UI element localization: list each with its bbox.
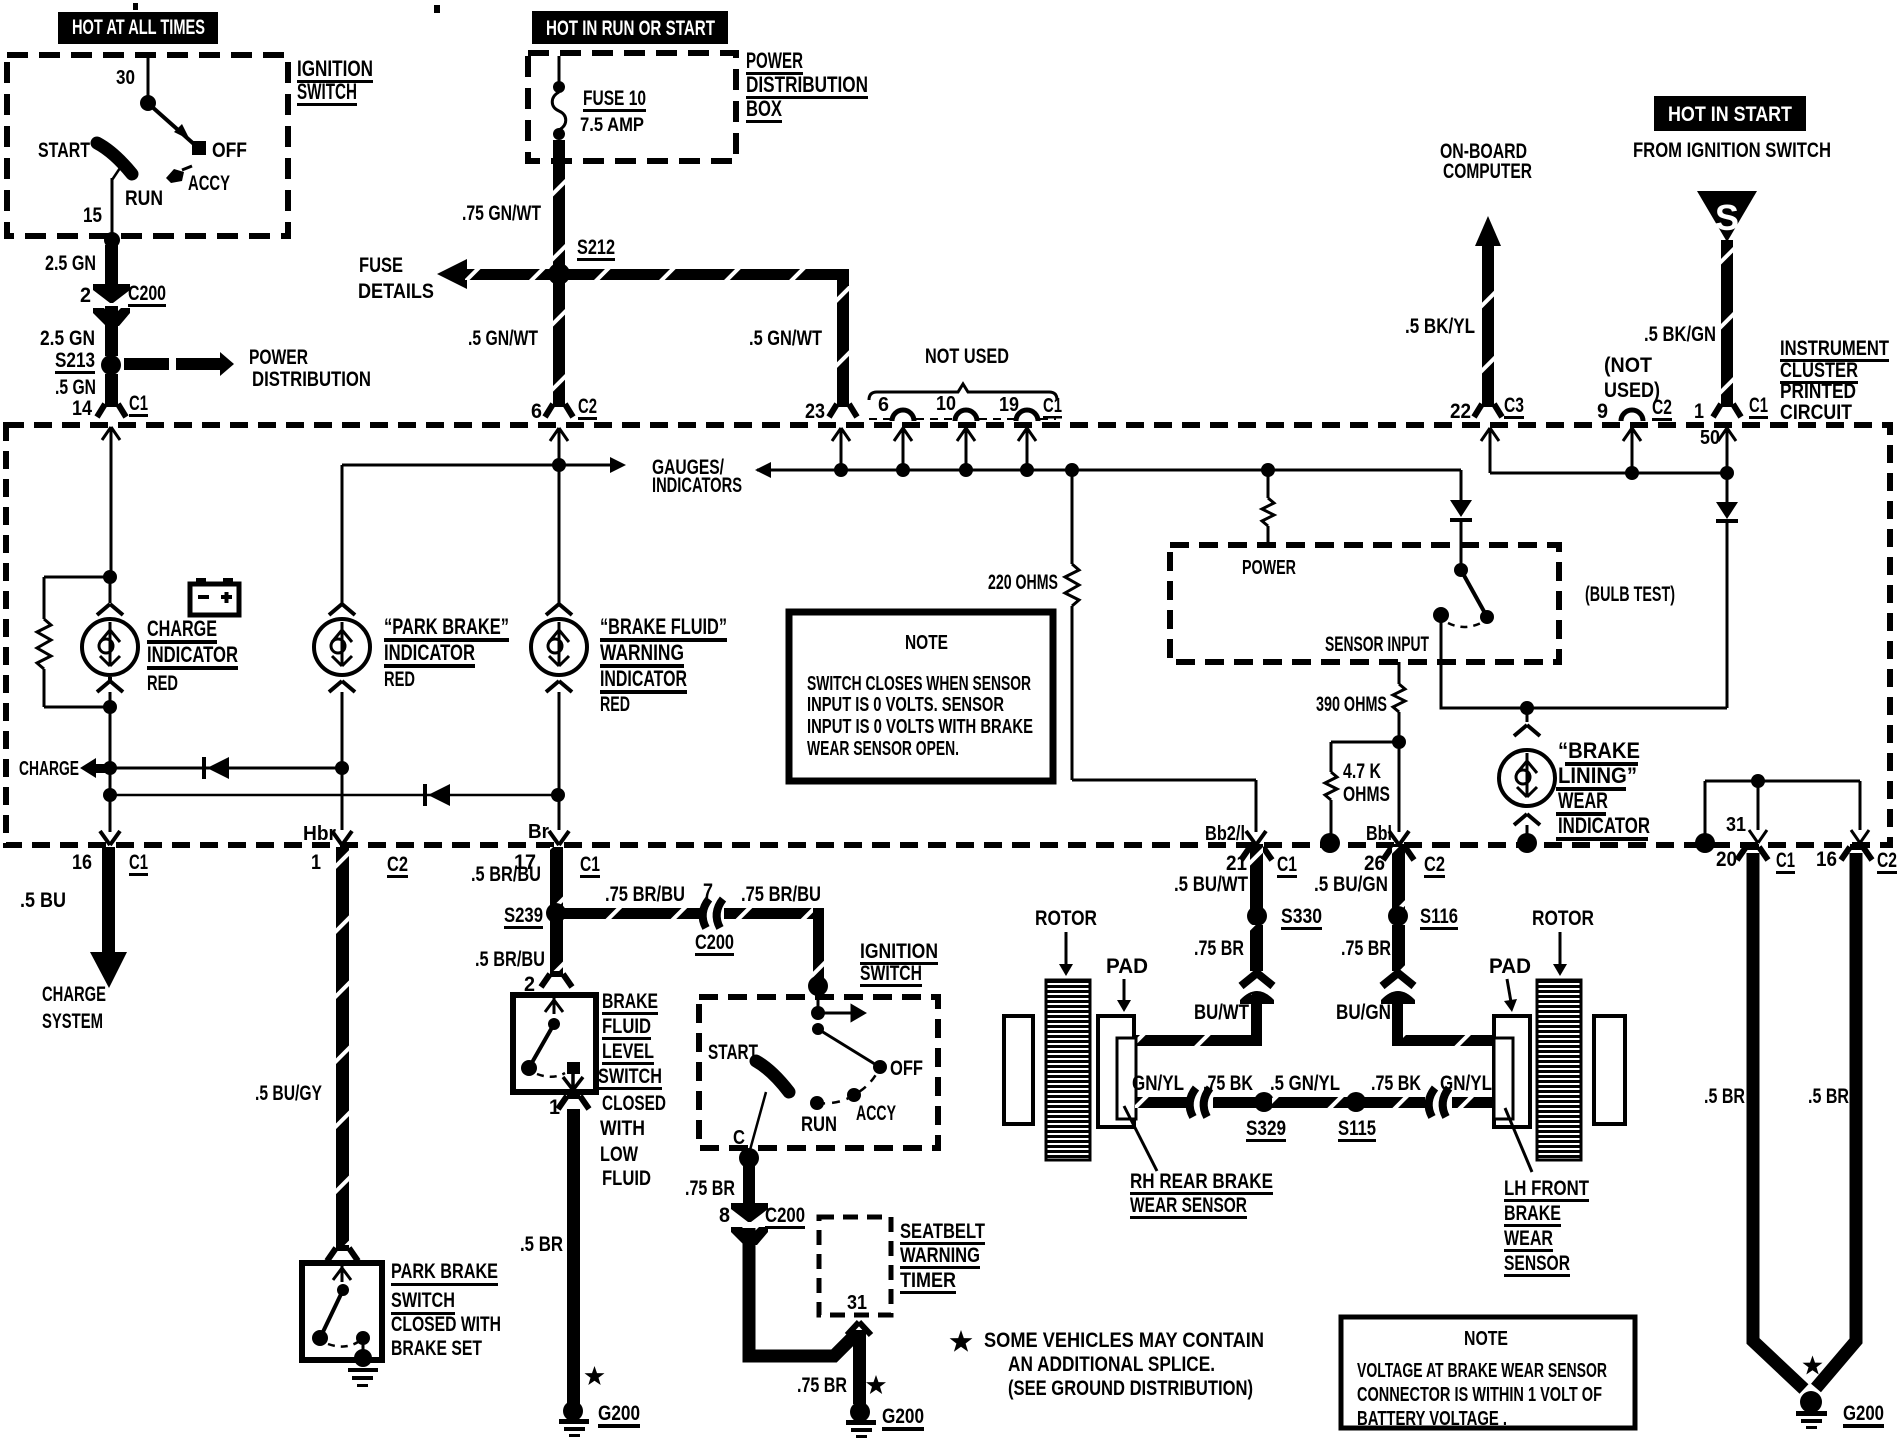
svg-text:WEAR SENSOR OPEN.: WEAR SENSOR OPEN.	[807, 738, 959, 760]
svg-text:DISTRIBUTION: DISTRIBUTION	[746, 72, 868, 97]
svg-text:POWER: POWER	[746, 48, 803, 73]
tick mark top middle	[434, 5, 440, 13]
390 ohms sensor input resistor	[1316, 662, 1405, 832]
bulb test switch	[1433, 563, 1494, 627]
svg-text:7.5 AMP: 7.5 AMP	[580, 115, 644, 136]
svg-text:SWITCH: SWITCH	[598, 1065, 662, 1088]
svg-text:S329: S329	[1246, 1117, 1286, 1140]
OFF contact	[174, 124, 190, 140]
svg-text:IGNITION: IGNITION	[860, 940, 938, 963]
label LH FRONT BRAKE WEAR SENSOR	[1504, 1177, 1589, 1277]
splice S116	[1388, 906, 1408, 926]
svg-text:C3: C3	[1504, 394, 1524, 417]
svg-text:.5 BR: .5 BR	[520, 1233, 563, 1256]
label RH REAR BRAKE WEAR SENSOR	[1130, 1170, 1273, 1219]
label GAUGES/INDICATORS	[652, 456, 742, 497]
wire bus at S212 (horizontal)	[465, 269, 849, 280]
svg-text:31: 31	[847, 1292, 867, 1314]
node 390/4.7k junction	[1392, 735, 1406, 749]
wire .5 BR (pin 20 to G200)	[1753, 853, 1804, 1389]
svg-text:BRAKE SET: BRAKE SET	[391, 1337, 482, 1360]
svg-text:CHARGE: CHARGE	[19, 758, 79, 780]
wire .75 BR (S116 to connector)	[1392, 925, 1405, 971]
label "PARK BRAKE" INDICATOR RED	[384, 614, 509, 691]
svg-text:DETAILS: DETAILS	[358, 280, 434, 303]
svg-text:WEAR SENSOR: WEAR SENSOR	[1130, 1194, 1247, 1217]
svg-text:HOT IN RUN OR START: HOT IN RUN OR START	[546, 17, 715, 40]
svg-text:POWER: POWER	[1242, 557, 1296, 579]
svg-text:ACCY: ACCY	[188, 172, 230, 195]
LH rotor (hatched)	[1537, 980, 1581, 1160]
wire .5 BU/GY (pin 1 C2 to park brake switch)	[255, 847, 358, 1261]
220 ohms resistor branch to pin 21	[988, 470, 1256, 832]
svg-text:LINING”: LINING”	[1558, 763, 1637, 788]
svg-text:.5 BU/WT: .5 BU/WT	[1174, 873, 1248, 896]
banner HOT IN START	[1654, 96, 1806, 131]
svg-text:C1: C1	[580, 853, 600, 876]
svg-text:INSTRUMENT: INSTRUMENT	[1780, 337, 1889, 360]
pin 14 C1 at cluster	[72, 392, 148, 420]
svg-text:INDICATORS: INDICATORS	[652, 474, 742, 497]
svg-text:S330: S330	[1281, 905, 1322, 928]
svg-text:.75 BR: .75 BR	[685, 1177, 735, 1200]
svg-text:C: C	[733, 1127, 745, 1149]
svg-text:8: 8	[719, 1204, 730, 1227]
wire .75 BR (C to C200-8)	[743, 1165, 755, 1205]
svg-text:14: 14	[72, 397, 92, 420]
svg-text:RUN: RUN	[801, 1113, 837, 1136]
label IGNITION SWITCH	[297, 56, 373, 106]
svg-text:10: 10	[936, 393, 956, 415]
node ignition switch feed	[808, 976, 828, 996]
pin 6 C2	[531, 395, 597, 423]
wire .5 BR/BU (pin 17 to S239)	[550, 847, 563, 907]
ground G200 (brake wear sensors)	[1796, 1391, 1884, 1429]
ground G200 (seatbelt timer)	[846, 1402, 924, 1438]
ignition switch box (dashed)	[7, 55, 288, 236]
label POWER DISTRIBUTION BOX	[746, 48, 868, 123]
node on park brake wire	[335, 761, 349, 775]
svg-text:.5 GN/WT: .5 GN/WT	[468, 327, 538, 350]
CHARGE output arrow at left edge	[19, 758, 110, 780]
diode line to brake fluid bulb	[110, 794, 558, 797]
connector (LH sensor)	[1429, 1088, 1449, 1117]
svg-text:LH FRONT: LH FRONT	[1504, 1177, 1589, 1200]
wire .75 BK (connector to S329)	[1213, 1097, 1258, 1108]
svg-text:LEVEL: LEVEL	[602, 1040, 654, 1063]
svg-text:COMPUTER: COMPUTER	[1443, 160, 1532, 183]
gauges bus with left arrow	[757, 469, 1461, 472]
label PAD right with arrow	[1489, 955, 1531, 1012]
instrument cluster printed circuit box (dashed)	[6, 425, 1890, 845]
svg-text:4.7 K: 4.7 K	[1343, 760, 1381, 783]
svg-text:.5 GN/WT: .5 GN/WT	[749, 327, 822, 350]
wire 2.5 GN (pin 15 to C200)	[105, 245, 118, 286]
svg-text:SENSOR INPUT: SENSOR INPUT	[1325, 633, 1429, 656]
svg-text:Bb2/l: Bb2/l	[1205, 823, 1245, 845]
svg-text:.5 BK/GN: .5 BK/GN	[1644, 323, 1716, 346]
LH pad	[1494, 1016, 1530, 1127]
arrow to POWER DISTRIBUTION	[124, 346, 371, 391]
pin 16 C2 chevron and labels	[1816, 847, 1897, 874]
label S212	[577, 236, 615, 261]
pin 31/20/16 header inside cluster	[1705, 774, 1869, 843]
svg-text:G200: G200	[882, 1405, 924, 1428]
splice S212	[548, 263, 570, 285]
wire .75 GN/WT (fuse to S212)	[553, 140, 565, 270]
svg-text:(NOT: (NOT	[1604, 354, 1652, 377]
wire GN/YL (connector to LH sensor)	[1452, 1097, 1494, 1108]
svg-text:2.5 GN: 2.5 GN	[45, 252, 96, 275]
svg-text:FLUID: FLUID	[602, 1015, 651, 1038]
svg-text:C1: C1	[129, 851, 148, 874]
LH caliper outer plate	[1594, 1016, 1625, 1124]
svg-text:S116: S116	[1420, 905, 1458, 928]
arrow to on-board computer	[1475, 216, 1501, 246]
shunt resistor beside charge indicator	[37, 577, 104, 707]
svg-text:16: 16	[1816, 848, 1837, 871]
resistor into power box	[1262, 470, 1274, 545]
label Bb2/l / pin 21 C1	[1205, 823, 1297, 878]
svg-text:S239: S239	[504, 904, 543, 927]
diode (park brake)	[204, 757, 229, 779]
svg-text:INPUT IS 0 VOLTS. SENSOR: INPUT IS 0 VOLTS. SENSOR	[807, 694, 1004, 716]
svg-text:31: 31	[1726, 814, 1746, 836]
wire 2.5 GN (C200 to S213)	[105, 306, 118, 356]
connector 8 C200	[719, 1203, 805, 1245]
brake fluid level switch box	[513, 995, 596, 1092]
RH rotor (hatched)	[1046, 980, 1090, 1160]
svg-text:C1: C1	[129, 392, 148, 415]
svg-text:.75 BR: .75 BR	[1194, 937, 1244, 960]
svg-text:“BRAKE: “BRAKE	[1558, 738, 1640, 763]
label ROTOR left with arrow	[1035, 907, 1097, 976]
node 4.7k to pc board	[1320, 833, 1340, 853]
NOTE box (voltage at brake wear sensor)	[1341, 1317, 1635, 1430]
svg-text:FUSE: FUSE	[359, 254, 403, 277]
RH pad	[1098, 1016, 1134, 1127]
svg-text:BRAKE: BRAKE	[602, 990, 658, 1013]
pin 22 C3	[1450, 394, 1524, 423]
svg-text:.5 BR/BU: .5 BR/BU	[471, 863, 541, 886]
svg-text:S: S	[1715, 197, 1739, 238]
pin 23	[805, 400, 857, 423]
label PAD left with arrow	[1106, 955, 1148, 1012]
splice S213	[101, 355, 121, 375]
svg-text:19: 19	[999, 394, 1019, 416]
svg-text:.75 BR/BU: .75 BR/BU	[741, 883, 821, 906]
wire .75 BK (S115 to connector)	[1364, 1097, 1425, 1108]
pin 1 C1	[1694, 394, 1768, 423]
svg-text:NOTE: NOTE	[905, 632, 948, 654]
svg-text:1: 1	[311, 851, 321, 874]
svg-text:1: 1	[549, 1096, 560, 1119]
arrow FUSE DETAILS	[358, 254, 467, 303]
wire .5 BK/YL (pin 22 C3 to computer)	[1482, 244, 1494, 405]
label "BRAKE FLUID" WARNING INDICATOR RED	[600, 614, 727, 716]
NOT USED bracket	[869, 345, 1057, 400]
pin arrows into cluster (23 6 10 19)	[832, 428, 850, 468]
svg-text:1: 1	[1694, 400, 1704, 423]
svg-text:6: 6	[531, 400, 542, 423]
ignition switch 2 internals	[708, 986, 923, 1150]
label (NOT USED) pin 9	[1604, 354, 1660, 402]
svg-text:START: START	[38, 139, 90, 162]
svg-text:SENSOR: SENSOR	[1504, 1252, 1570, 1275]
wire charge bulb to pin 16	[109, 707, 112, 832]
connector on BU/WT wire	[1240, 973, 1274, 1004]
inner dashed box POWER / SENSOR INPUT	[1170, 545, 1559, 662]
wire switch output down and to brake lining bulb	[1441, 615, 1727, 708]
label Hbr / pin 1 C2	[303, 823, 408, 878]
svg-text:C2: C2	[1652, 396, 1672, 419]
wire .5 GN (S213 to pin 14)	[105, 374, 118, 406]
svg-text:SEATBELT: SEATBELT	[900, 1220, 985, 1243]
svg-text:WEAR: WEAR	[1504, 1227, 1553, 1250]
svg-text:.75 BR: .75 BR	[1341, 937, 1391, 960]
svg-text:BRAKE: BRAKE	[1504, 1202, 1561, 1225]
node charge bottom	[103, 700, 117, 714]
svg-text:.75 BR: .75 BR	[797, 1374, 847, 1397]
tick mark top left	[133, 3, 138, 10]
node second diode junction	[103, 788, 117, 802]
svg-text:SWITCH CLOSES WHEN SENSOR: SWITCH CLOSES WHEN SENSOR	[807, 673, 1031, 695]
svg-text:NOTE: NOTE	[1464, 1328, 1508, 1350]
svg-text:16: 16	[72, 851, 92, 874]
svg-text:IGNITION: IGNITION	[297, 56, 373, 81]
svg-text:DISTRIBUTION: DISTRIBUTION	[252, 368, 371, 391]
connector (RH sensor)	[1190, 1088, 1210, 1117]
node pin 15	[104, 232, 120, 248]
star splice mark	[1803, 1356, 1823, 1375]
svg-text:PAD: PAD	[1106, 955, 1148, 978]
svg-text:CLOSED WITH: CLOSED WITH	[391, 1313, 501, 1336]
wire .5 BR (switch to G200)	[567, 1109, 580, 1404]
splice S330	[1247, 906, 1267, 926]
brake fluid warning indicator wire from pin 6	[558, 440, 561, 604]
svg-text:BATTERY VOLTAGE .: BATTERY VOLTAGE .	[1357, 1408, 1507, 1430]
wire .5 BU/WT (pin 21 to S330)	[1174, 847, 1272, 909]
START contact blade (heavy)	[97, 143, 132, 174]
svg-text:INDICATOR: INDICATOR	[1558, 813, 1650, 838]
svg-text:VOLTAGE AT BRAKE WEAR SENSOR: VOLTAGE AT BRAKE WEAR SENSOR	[1357, 1360, 1607, 1382]
svg-text:C1: C1	[1776, 849, 1795, 872]
svg-text:.75 GN/WT: .75 GN/WT	[462, 202, 541, 225]
svg-text:WARNING: WARNING	[600, 640, 684, 665]
svg-text:C200: C200	[765, 1204, 805, 1227]
svg-text:“PARK BRAKE”: “PARK BRAKE”	[384, 614, 509, 639]
svg-text:“BRAKE FLUID”: “BRAKE FLUID”	[600, 614, 727, 639]
svg-text:50: 50	[1700, 427, 1720, 449]
svg-text:OFF: OFF	[890, 1057, 923, 1080]
node ignition switch 2 output C	[739, 1148, 759, 1168]
label ON-BOARD COMPUTER	[1440, 140, 1532, 183]
svg-text:C2: C2	[1424, 853, 1445, 876]
svg-text:C200: C200	[695, 931, 734, 954]
svg-text:AN ADDITIONAL SPLICE.: AN ADDITIONAL SPLICE.	[1008, 1353, 1215, 1376]
wire .75 BR (seatbelt timer to G200)	[853, 1330, 866, 1404]
svg-text:26: 26	[1364, 852, 1385, 875]
svg-text:CHARGE: CHARGE	[42, 983, 106, 1006]
svg-text:SOME VEHICLES MAY CONTAIN: SOME VEHICLES MAY CONTAIN	[984, 1329, 1264, 1352]
park brake switch contacts	[312, 1266, 370, 1352]
diode line to park brake bulb	[110, 767, 342, 770]
svg-text:CLOSED: CLOSED	[602, 1092, 666, 1115]
svg-text:C1: C1	[1043, 395, 1062, 417]
svg-text:.5 BU/GN: .5 BU/GN	[1314, 873, 1388, 896]
label SEATBELT WARNING TIMER	[900, 1220, 985, 1294]
svg-text:WITH: WITH	[600, 1117, 645, 1140]
pin 14 arrow into cluster	[102, 427, 120, 447]
connector 7 C200	[695, 880, 734, 956]
svg-text:.5 GN/YL: .5 GN/YL	[1270, 1072, 1340, 1095]
svg-text:C2: C2	[387, 853, 408, 876]
diode at pin 50 branch	[1716, 473, 1738, 708]
ignition switch pivot node	[140, 95, 156, 111]
wire .5 BK/GN (S to pin 1 C1)	[1721, 240, 1733, 405]
svg-text:FROM IGNITION SWITCH: FROM IGNITION SWITCH	[1633, 139, 1831, 162]
pin arrows into cluster (22 9 1)	[1481, 428, 1499, 473]
splice S239	[546, 903, 566, 923]
svg-text:(BULB TEST): (BULB TEST)	[1585, 583, 1675, 606]
wire .75 BR/BU (C200 to ignition switch)	[724, 908, 824, 919]
pin 31 of seatbelt timer	[847, 1292, 871, 1335]
pin 20 C1 chevron and labels	[1716, 847, 1795, 874]
label INSTRUMENT CLUSTER PRINTED CIRCUIT	[1780, 337, 1889, 424]
wire .75 BR (C200-8 to seatbelt splice)	[749, 1228, 857, 1356]
park brake indicator bulb	[314, 604, 370, 830]
svg-text:PRINTED: PRINTED	[1780, 380, 1856, 403]
svg-text:15: 15	[83, 204, 102, 227]
RH caliper outer plate	[1004, 1016, 1033, 1124]
svg-text:RH REAR BRAKE: RH REAR BRAKE	[1130, 1170, 1273, 1193]
wire .75 BR (S330 to connector)	[1250, 925, 1263, 971]
svg-text:SYSTEM: SYSTEM	[42, 1010, 103, 1033]
svg-text:POWER: POWER	[249, 346, 308, 369]
pin 9 C2 (not used hump)	[1597, 396, 1672, 423]
pin 16 C1 chevron	[72, 831, 148, 876]
svg-text:RED: RED	[600, 693, 630, 716]
label CHARGE INDICATOR RED	[147, 616, 238, 695]
node brake fluid wire crossing	[552, 458, 566, 472]
not used pins 6 10 19 C1	[869, 393, 1062, 421]
svg-text:WEAR: WEAR	[1558, 788, 1608, 813]
svg-text:CLUSTER: CLUSTER	[1780, 359, 1858, 382]
svg-text:220 OHMS: 220 OHMS	[988, 571, 1058, 594]
connector on BU/GN wire	[1381, 973, 1415, 1004]
svg-text:C200: C200	[128, 282, 166, 305]
svg-text:S212: S212	[577, 236, 615, 259]
svg-text:BOX: BOX	[746, 96, 782, 121]
svg-text:S213: S213	[55, 349, 95, 372]
svg-text:C2: C2	[578, 395, 597, 418]
svg-text:.75 BR/BU: .75 BR/BU	[605, 883, 685, 906]
banner HOT IN RUN OR START	[532, 11, 728, 44]
charge indicator bulb	[82, 582, 138, 707]
svg-text:SWITCH: SWITCH	[391, 1289, 455, 1312]
svg-text:RED: RED	[147, 672, 178, 695]
svg-text:390 OHMS: 390 OHMS	[1316, 693, 1387, 716]
RH sensor pointer line	[1124, 1106, 1157, 1171]
brake fluid level switch contacts	[521, 998, 583, 1090]
bus junction nodes	[834, 463, 848, 477]
svg-text:BU/WT: BU/WT	[1194, 1001, 1249, 1024]
svg-text:LOW: LOW	[600, 1143, 638, 1166]
svg-text:30: 30	[116, 67, 135, 89]
svg-text:TIMER: TIMER	[900, 1269, 956, 1292]
svg-text:OFF: OFF	[212, 139, 247, 162]
label "BRAKE LINING" WEAR INDICATOR	[1556, 738, 1650, 841]
wire .5 GN/YL (S329 to S115)	[1272, 1097, 1350, 1108]
splice S115	[1346, 1092, 1366, 1112]
park brake indicator wire up to gauges line	[341, 465, 344, 604]
4.7k ohms resistor branch	[1325, 742, 1399, 838]
star splice mark	[866, 1375, 886, 1394]
svg-text:G200: G200	[598, 1402, 640, 1425]
svg-text:GN/YL: GN/YL	[1440, 1072, 1492, 1095]
node brake lining bulb top	[1520, 701, 1534, 715]
svg-text:FUSE 10: FUSE 10	[583, 87, 646, 110]
svg-text:C1: C1	[1277, 853, 1297, 876]
wire pin14 down to charge indicator	[110, 445, 113, 577]
svg-text:.5 BK/YL: .5 BK/YL	[1405, 315, 1475, 338]
node brake lining to pc board	[1517, 833, 1537, 853]
power distribution box (dashed)	[528, 53, 736, 161]
label Br / pin 17 C1	[514, 821, 600, 878]
star splice mark	[585, 1366, 605, 1385]
park brake switch case ground	[348, 1349, 378, 1387]
svg-text:SWITCH: SWITCH	[860, 962, 922, 985]
ignition switch blade to OFF	[150, 105, 195, 145]
svg-text:WARNING: WARNING	[900, 1244, 980, 1267]
gauges line left with arrow	[342, 464, 612, 467]
node charge top	[103, 570, 117, 584]
sensor loop wire GN/YL (RH sensor to connector)	[1135, 1097, 1190, 1108]
svg-text:Bbl: Bbl	[1366, 823, 1392, 845]
connector 2 C200	[80, 282, 166, 326]
brake lining wear indicator bulb	[1499, 708, 1555, 838]
svg-text:NOT USED: NOT USED	[925, 345, 1009, 368]
fuse 10 symbol	[552, 56, 566, 140]
ACCY contact	[166, 169, 184, 183]
svg-text:20: 20	[1716, 848, 1737, 871]
node charge/diode junction	[103, 761, 117, 775]
label ROTOR right with arrow	[1532, 907, 1594, 976]
wire .5 BR (pin 16 to G200)	[1816, 853, 1856, 1388]
svg-text:HOT IN START: HOT IN START	[1668, 103, 1792, 126]
label BRAKE FLUID LEVEL SWITCH CLOSED WITH LOW FLUID	[598, 990, 666, 1190]
svg-text:ROTOR: ROTOR	[1532, 907, 1594, 930]
label FUSE 10 / 7.5 AMP	[580, 87, 646, 136]
svg-text:OHMS: OHMS	[1343, 783, 1390, 806]
splice S329	[1254, 1092, 1274, 1112]
RH brake wear sensor element	[1117, 1038, 1136, 1119]
svg-text:.5 BR/BU: .5 BR/BU	[475, 948, 545, 971]
svg-text:7: 7	[703, 880, 713, 903]
svg-text:(SEE GROUND DISTRIBUTION): (SEE GROUND DISTRIBUTION)	[1008, 1377, 1253, 1400]
battery symbol	[190, 578, 239, 615]
star note text	[950, 1329, 1264, 1400]
svg-text:2: 2	[80, 284, 91, 307]
pin 1 of brake fluid level switch	[549, 1096, 589, 1119]
ignition switch box 2 (dashed)	[699, 997, 938, 1148]
wire .5 GN/WT (S212 down to pin 6 C2)	[553, 280, 565, 405]
svg-text:CIRCUIT: CIRCUIT	[1780, 401, 1852, 424]
svg-text:ACCY: ACCY	[856, 1102, 896, 1125]
svg-text:HOT AT ALL TIMES: HOT AT ALL TIMES	[72, 16, 205, 39]
svg-text:INDICATOR: INDICATOR	[147, 642, 238, 667]
pin 6 arrow into cluster	[550, 428, 568, 448]
